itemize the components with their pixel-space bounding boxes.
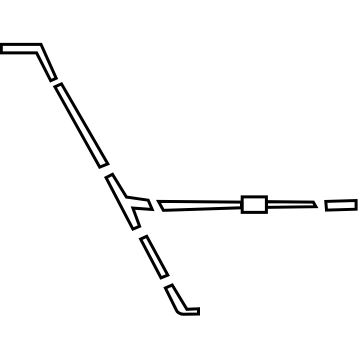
horizontal cable, right of connector (pointed tip): [267, 202, 316, 208]
connector box: [242, 197, 266, 213]
rod segment 5 (bottom foot hook): [165, 285, 198, 314]
right end fitting bar: [326, 201, 356, 211]
rod segment 4 (lower diagonal): [141, 236, 168, 277]
rod segment 3 (T-junction with stub): [106, 174, 152, 229]
horizontal cable, left of connector: [159, 201, 242, 210]
rod segment 2 (long diagonal): [55, 84, 108, 167]
rod segment 1 (bent upper rod): [1, 44, 56, 80]
